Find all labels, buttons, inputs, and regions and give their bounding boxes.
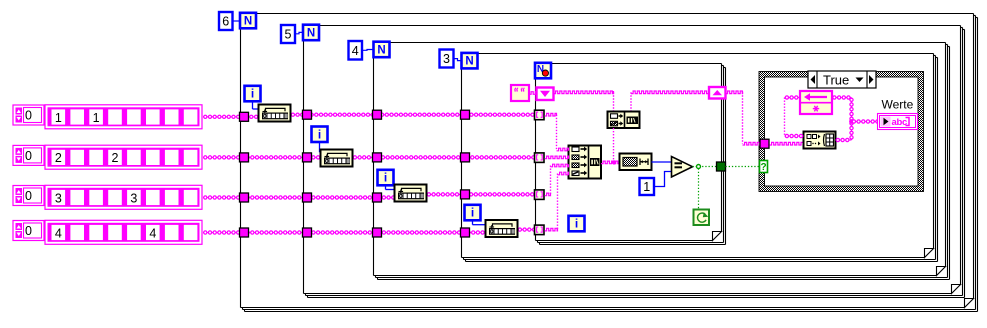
svg-text:N: N xyxy=(377,44,385,56)
svg-text:4: 4 xyxy=(352,44,359,58)
svg-text:3: 3 xyxy=(443,52,450,66)
svg-text:i: i xyxy=(575,217,578,231)
svg-text:2: 2 xyxy=(112,151,119,165)
svg-text:i: i xyxy=(251,87,254,101)
svg-text:0: 0 xyxy=(25,109,32,123)
svg-text:i: i xyxy=(471,206,474,220)
svg-text:3: 3 xyxy=(55,191,62,205)
svg-text:1: 1 xyxy=(55,111,62,125)
svg-text:3: 3 xyxy=(130,191,137,205)
svg-text:?: ? xyxy=(760,162,766,173)
svg-text:2: 2 xyxy=(55,151,62,165)
svg-text:4: 4 xyxy=(55,226,62,240)
svg-text:N: N xyxy=(307,27,315,39)
svg-text:True: True xyxy=(823,72,849,87)
svg-text:abc: abc xyxy=(892,117,907,128)
svg-text:1: 1 xyxy=(93,111,100,125)
svg-text:0: 0 xyxy=(25,189,32,203)
svg-text:4: 4 xyxy=(149,226,156,240)
svg-text:i: i xyxy=(384,171,387,185)
svg-text:Werte: Werte xyxy=(882,98,914,112)
svg-text:6: 6 xyxy=(222,15,229,29)
svg-text:5: 5 xyxy=(285,28,292,42)
svg-text:N: N xyxy=(465,56,473,68)
svg-text:0: 0 xyxy=(25,224,32,238)
svg-text:1: 1 xyxy=(643,180,650,194)
svg-text:0: 0 xyxy=(25,149,32,163)
svg-text:i: i xyxy=(318,127,321,141)
svg-text:N: N xyxy=(244,16,252,28)
